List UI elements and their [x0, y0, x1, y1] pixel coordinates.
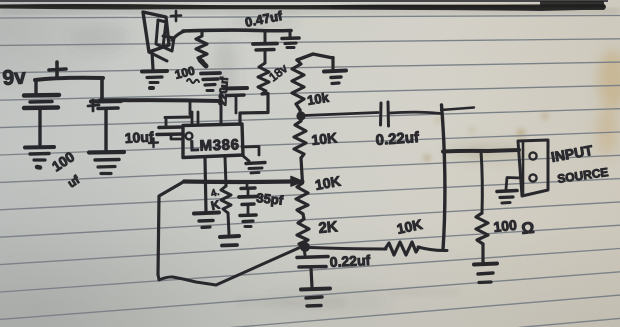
ground under battery: [25, 145, 54, 150]
wire node to C 0.22uF: [304, 113, 378, 116]
wire C 0.22uF to right rail: [390, 112, 441, 113]
resistor R 10K horizontal: [385, 242, 419, 255]
capacitor C 10uF plus: [149, 139, 158, 148]
feedback loop wire bottom wavy: [158, 274, 216, 285]
ground top of divider: [331, 58, 334, 70]
potentiometer wiper arrow: [292, 180, 303, 183]
input source jack box: [518, 140, 548, 196]
resistor R 4.7K: [221, 186, 231, 213]
wire down to 100R load: [481, 151, 482, 213]
right rail wire down: [442, 105, 445, 250]
feedback loop wire left: [158, 182, 184, 276]
wire 10uF to U1: [171, 135, 183, 139]
wire 100R to ground: [481, 244, 484, 262]
resistor R 2K: [297, 219, 309, 247]
capacitor C 10uF plates: [159, 125, 182, 129]
capacitor across pins top: [220, 92, 223, 124]
wire lower terminal to ground: [506, 178, 522, 190]
speaker plus: [171, 11, 181, 21]
wire ground to divider top: [297, 54, 333, 60]
wire 18v resistor to U1 pin: [240, 94, 268, 125]
feedback loop wire top: [184, 179, 292, 184]
wire pot to 2K: [303, 214, 304, 219]
wire bus drop to 10uF: [165, 101, 191, 127]
ground under input jack: [497, 191, 517, 192]
wire speaker to ground: [152, 52, 153, 69]
resistor R 10K pot section: [296, 183, 308, 214]
capacitor C 0.22uF coupling plates: [379, 103, 383, 125]
capacitor C 0.22uF bottom plates: [304, 248, 305, 255]
U1 pin1 marker circle: [186, 133, 193, 140]
ground on top rail: [289, 31, 292, 37]
speaker SPK1: [143, 12, 169, 52]
U1 pin4 wire down to ground: [205, 158, 206, 212]
resistor 100R: [196, 32, 207, 61]
wire 4.7K to cap: [228, 213, 229, 234]
op-amp U1 LM386 box: [183, 124, 243, 158]
wire down to bus: [100, 78, 104, 100]
battery B1 cells: [34, 80, 37, 93]
resistor R 10K second: [294, 121, 306, 158]
ground right of U1: [246, 163, 265, 164]
ground under 0.22uF: [301, 289, 330, 290]
U1 pin wire to gain resistor: [225, 157, 226, 186]
capacitor C1 100uF plates: [91, 99, 121, 104]
battery B1 plus sign: [49, 62, 66, 77]
ground under U1 pin4: [194, 213, 219, 214]
power bus wire: [100, 98, 221, 103]
resistor R 100R load: [476, 213, 488, 244]
capacitor 220uF plates: [201, 71, 220, 75]
resistor R 18v: [258, 63, 269, 94]
ground under 35pF: [240, 213, 256, 217]
wire battery- down: [38, 109, 41, 145]
wire speaker to top rail: [172, 31, 185, 40]
wire right rail to input: [443, 150, 519, 152]
capacitor 0.47uF: [264, 32, 267, 42]
feedback loop wire diagonal to node: [216, 247, 302, 286]
node junction below 2K: [300, 242, 310, 252]
input jack terminal lower: [529, 174, 536, 181]
wire C1 to ground: [104, 110, 107, 150]
U1 pin5 wire down-right to small ground: [242, 147, 259, 156]
input jack terminal upper: [529, 152, 536, 159]
notebook top edge band: [0, 0, 608, 2]
wire battery+ to node: [35, 78, 103, 80]
capacitor below 4.7K plates: [220, 236, 239, 237]
wire node to 10K horizontal: [310, 248, 386, 250]
U1 top pin stubs: [192, 112, 198, 125]
top rail wire: [183, 28, 291, 32]
ground under 100R: [474, 264, 497, 265]
ground under speaker: [142, 69, 167, 74]
capacitor C1 100uF plus: [88, 100, 99, 111]
resistor R 10k upper: [292, 60, 304, 110]
node junction dot: [296, 111, 305, 120]
wire to wiper region: [301, 158, 303, 183]
capacitor C 35pF: [246, 182, 249, 187]
ghost marks (show-through): [235, 288, 460, 307]
wire 10K to right rail: [418, 247, 447, 251]
ground under C1: [89, 150, 124, 155]
